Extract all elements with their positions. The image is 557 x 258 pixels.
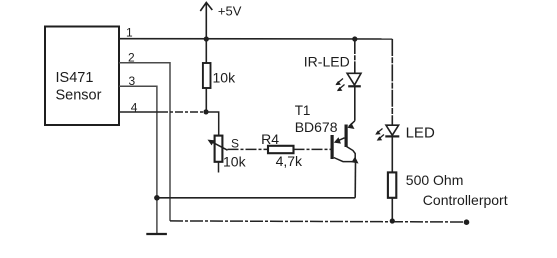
svg-text:IS471: IS471 — [56, 70, 94, 86]
svg-text:+5V: +5V — [218, 4, 242, 19]
wire LED cathode to 500 Ohm — [391, 136, 393, 172]
resistor R4 4,7k — [261, 131, 303, 169]
svg-text:10k: 10k — [223, 153, 247, 169]
transistor T1 BD678 (darlington) — [295, 103, 359, 164]
svg-text:BD678: BD678 — [295, 119, 338, 135]
wire T1 collector down — [354, 162, 356, 198]
+5V supply arrow — [200, 3, 241, 40]
IS471 sensor box U1 — [45, 27, 119, 126]
wire 500 Ohm to controller line — [391, 198, 393, 221]
svg-text:Sensor: Sensor — [56, 87, 102, 103]
Q2 base bar — [345, 125, 348, 148]
node: junction 500 Ohm / controller line — [390, 218, 395, 223]
LED D2 — [375, 125, 435, 173]
wiper arrow — [210, 141, 228, 151]
svg-text:Controllerport: Controllerport — [423, 192, 508, 208]
cathode bar — [348, 85, 361, 87]
wire pin3 to ground — [119, 86, 157, 234]
node: junction +5V / 10k — [204, 36, 209, 41]
wire R4 to T1 base — [294, 148, 331, 150]
wire pin2 (output) to controller line — [119, 63, 170, 221]
svg-text:LED: LED — [406, 125, 435, 142]
wire IR-LED cathode to T1 emitter — [354, 86, 356, 121]
wire rail corner down right branch — [391, 39, 393, 125]
svg-text:T1: T1 — [295, 103, 311, 118]
wire controller line — [170, 221, 467, 222]
svg-text:10k: 10k — [213, 70, 237, 86]
svg-text:IR-LED: IR-LED — [304, 54, 350, 70]
collector junction arrow blob — [352, 157, 359, 164]
svg-text:500 Ohm: 500 Ohm — [406, 172, 464, 188]
Q2 collector — [347, 147, 356, 162]
svg-text:1: 1 — [126, 26, 133, 40]
node: junction pin3/ground wire — [154, 195, 160, 201]
wire pin1 +5V rail — [119, 38, 392, 40]
IR-LED D1 — [304, 39, 361, 121]
wire pin4 to node — [119, 111, 160, 113]
svg-text:S: S — [231, 136, 239, 150]
anode triangle — [386, 125, 399, 135]
emission arrows — [377, 129, 383, 134]
wire rail to IR-LED anode — [354, 39, 356, 73]
emission arrows — [337, 79, 344, 85]
node: junction IR-LED branch on rail — [352, 36, 357, 41]
svg-text:R4: R4 — [261, 131, 279, 147]
resistor 500 Ohm — [388, 172, 463, 221]
Q1 emitter diagonal to Q2 base, arrow into Q1 bar — [336, 138, 345, 142]
anode triangle — [347, 73, 361, 85]
cathode bar — [385, 135, 399, 137]
potentiometer 10k P1 — [208, 136, 247, 173]
ground — [146, 233, 167, 235]
wire collector to ground node — [157, 197, 355, 199]
node: junction pin4 / 10k / pot — [203, 109, 208, 114]
node: controller port terminal — [464, 219, 470, 225]
Q2 emitter diagonal with arrow — [349, 121, 355, 127]
wire node to pot top — [206, 112, 219, 136]
wire wiper to R4 — [228, 148, 269, 150]
svg-text:4,7k: 4,7k — [276, 153, 303, 169]
Q1 collector — [334, 158, 355, 162]
resistor 10k (pull-up) — [203, 39, 236, 112]
Q1 base bar — [331, 135, 334, 159]
